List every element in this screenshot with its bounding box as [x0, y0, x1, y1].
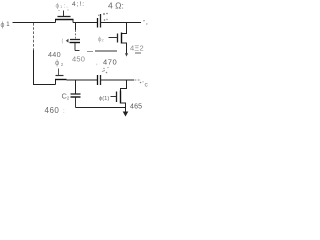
wire top middle: [73, 22, 97, 24]
svg-text:4;!:: 4;!:: [72, 1, 85, 8]
transistor M2 (top right) drain: [122, 23, 127, 34]
wire top right: [101, 22, 142, 24]
svg-text:460: 460: [45, 106, 60, 115]
svg-text:ϕ₁:.: ϕ₁:.: [56, 3, 69, 10]
transistor M4 (bottom right) drain: [121, 80, 127, 91]
M2 gate bar: [117, 34, 119, 43]
svg-text:4Ξ2: 4Ξ2: [130, 44, 144, 53]
transistor M3 (inline horizontal MOSFET, second row): [55, 80, 57, 85]
svg-text:(: (: [62, 39, 64, 45]
svg-text:ϕ(1): ϕ(1): [99, 96, 109, 102]
junction lead down to capacitor C2: [75, 80, 77, 94]
svg-text:465: 465: [130, 104, 142, 111]
wire second row left: [67, 79, 98, 81]
ground arrow: [123, 112, 129, 117]
M2 gate lead: [109, 37, 118, 39]
M4 gate lead: [111, 96, 117, 98]
junction lead down to capacitor C1: [75, 23, 77, 30]
end label specks: [140, 82, 142, 84]
capacitor C2: [71, 93, 81, 95]
C2 bottom lead: [75, 98, 77, 108]
svg-text:4 Ω:: 4 Ω:: [108, 1, 124, 11]
label marks above C4: [102, 71, 105, 72]
capacitor C4 (series, second row): [97, 75, 99, 85]
svg-text:ϕ: ϕ: [55, 58, 59, 67]
svg-text:ϕ: ϕ: [1, 22, 5, 29]
M2 source lead: [122, 43, 127, 54]
label marks above C3: [98, 15, 99, 16]
capacitor C1: [70, 39, 80, 41]
M4 channel bar: [120, 91, 122, 104]
wire top-left: [13, 22, 56, 24]
wire bottom-left horizontal: [33, 84, 56, 86]
wire second row right: [101, 79, 135, 81]
wire left vertical (dashed fade): [33, 23, 35, 50]
svg-text:ϕ₂: ϕ₂: [98, 37, 104, 43]
end-of-wire specks: [143, 20, 144, 21]
M2 channel bar: [121, 33, 123, 44]
bottom rail: [76, 107, 126, 109]
M4 source lead: [121, 103, 126, 112]
switched-capacitor two-phase circuit schematic: [0, 0, 151, 120]
svg-text:470: 470: [103, 58, 117, 67]
capacitor C3 (series, top wire): [97, 18, 99, 28]
transistor M1 (inline horizontal MOSFET, top row): [55, 20, 57, 23]
label C1 (dark wedge): [66, 39, 69, 43]
wire mid horizontal under C1: [87, 51, 93, 53]
M4 gate bar: [116, 92, 118, 103]
current arrow: [125, 53, 128, 56]
svg-text:450: 450: [72, 55, 85, 64]
